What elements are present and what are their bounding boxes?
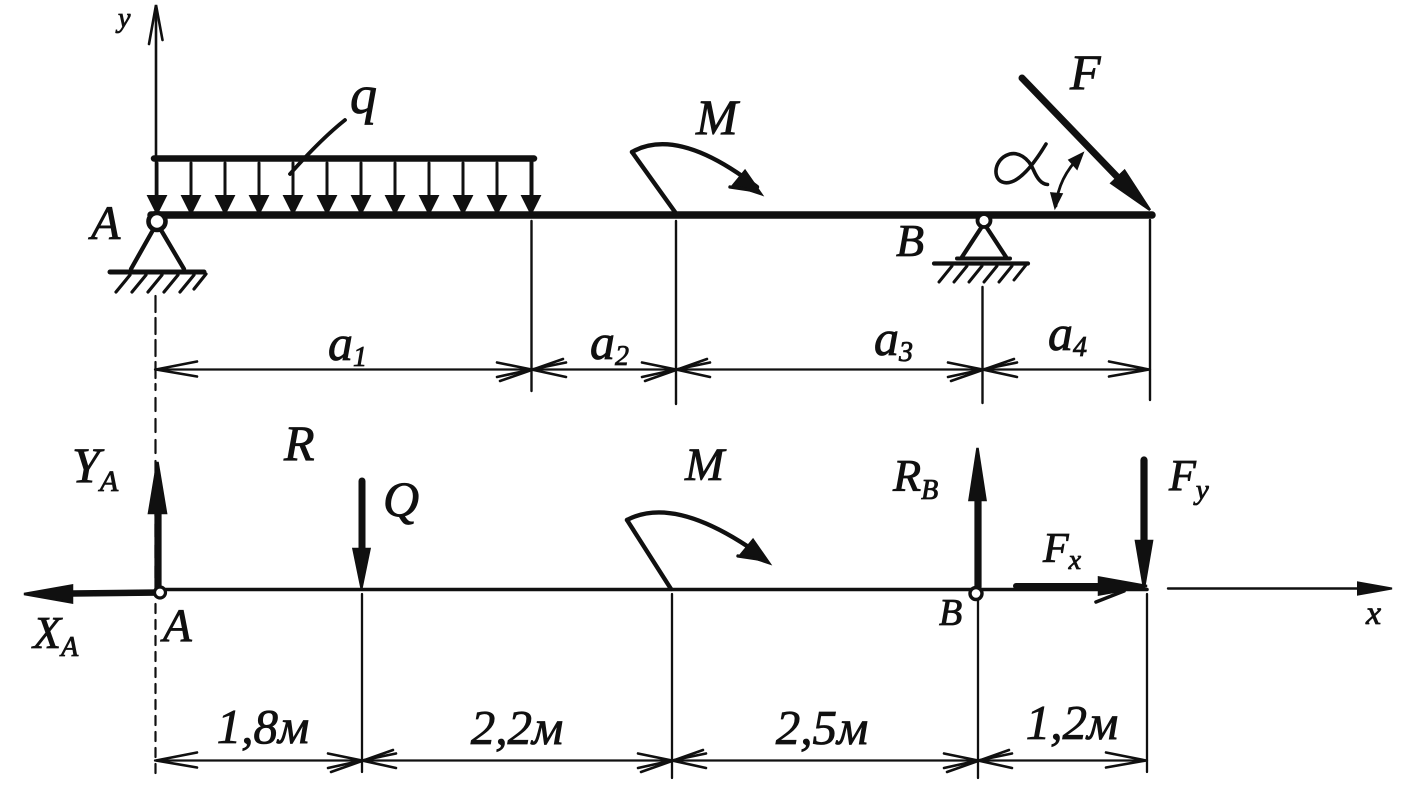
x-axis tail with arrow <box>1168 587 1385 589</box>
force Fy arrow <box>1140 460 1147 540</box>
dim junction a3/a4 <box>948 359 1017 381</box>
distributed load q top bar <box>154 155 534 162</box>
force Q arrow <box>359 481 366 550</box>
angle alpha arc <box>1051 153 1083 208</box>
svg-text:A: A <box>88 197 121 250</box>
reaction RB arrow <box>974 500 981 587</box>
ground line B <box>934 261 1028 265</box>
beam (top) <box>151 211 1152 219</box>
reaction XA arrow <box>72 593 160 594</box>
support A pin <box>110 230 206 292</box>
label alpha <box>996 144 1048 185</box>
ground line A <box>110 270 204 275</box>
support B pin <box>934 228 1028 282</box>
svg-text:2,5м: 2,5м <box>776 700 869 755</box>
dim arrow right end (1,2m) <box>1106 753 1146 768</box>
extension line at B (top) <box>981 287 983 403</box>
dim junction a2/a3 <box>642 359 710 381</box>
svg-text:YA: YA <box>72 437 119 498</box>
bottom dimension line <box>155 759 1147 761</box>
hatching B <box>939 265 1026 282</box>
svg-text:M: M <box>684 439 727 491</box>
extension line a2/a3 (M point) <box>675 221 677 404</box>
hatching A <box>116 274 206 292</box>
dim junction 2,2/2,5 <box>638 750 706 772</box>
extension line a1/a2 <box>530 221 532 391</box>
extension line Q (bottom) <box>361 594 363 772</box>
pin circle A <box>149 213 166 230</box>
svg-text:x: x <box>1365 595 1381 632</box>
svg-text:XA: XA <box>31 607 79 663</box>
centerline A between diagrams <box>154 296 156 390</box>
svg-text:a3: a3 <box>874 310 913 368</box>
x-axis beam (bottom) <box>157 588 1147 592</box>
moment M (bottom) arc arrow <box>627 512 769 589</box>
dim arrow right end (a4) <box>1109 362 1149 377</box>
dim junction 1,8/2,2 <box>328 750 396 772</box>
svg-text:Q: Q <box>383 471 419 527</box>
dim junction a1/a2 <box>497 359 566 381</box>
dim arrow left end (1,8m) <box>156 753 197 768</box>
svg-text:A: A <box>160 600 192 652</box>
svg-text:R: R <box>283 415 315 471</box>
svg-text:1,8м: 1,8м <box>217 699 310 754</box>
hinge circle B (bottom) <box>970 588 982 600</box>
pin circle B <box>978 214 991 227</box>
reaction YA arrow <box>154 502 161 588</box>
svg-text:a4: a4 <box>1048 305 1087 363</box>
svg-text:Fy: Fy <box>1168 451 1209 506</box>
svg-text:RB: RB <box>892 450 938 506</box>
distributed load right edge <box>530 160 534 209</box>
svg-text:2,2м: 2,2м <box>471 700 564 755</box>
svg-text:q: q <box>350 65 377 125</box>
q leader line <box>290 120 345 174</box>
extension line M (bottom) <box>671 594 673 778</box>
top dimension line <box>155 368 1150 370</box>
svg-text:Fx: Fx <box>1042 526 1082 576</box>
svg-text:M: M <box>695 89 740 145</box>
svg-text:1,2м: 1,2м <box>1026 695 1119 750</box>
dim arrow left end (a1) <box>156 362 197 377</box>
svg-text:a1: a1 <box>328 315 367 373</box>
distributed load arrows <box>149 163 539 213</box>
moment M (top) arc arrow <box>632 144 761 212</box>
extension line right end (top) <box>1149 220 1151 400</box>
dim junction 2,5/1,2 <box>944 750 1012 772</box>
hinge circle A (bottom) <box>155 587 166 598</box>
svg-text:y: y <box>115 3 131 34</box>
svg-text:B: B <box>939 592 962 634</box>
extension line B (bottom) <box>977 601 979 778</box>
svg-text:B: B <box>896 215 924 266</box>
force F arrowhead <box>1112 171 1151 210</box>
centerline A below (bottom) <box>154 604 156 775</box>
svg-text:a2: a2 <box>590 314 629 372</box>
extension line right end (bottom) <box>1146 594 1148 772</box>
y-axis <box>149 5 163 213</box>
svg-text:F: F <box>1069 44 1101 100</box>
force F inclined line <box>1022 78 1127 187</box>
force Fx arrow <box>1016 583 1098 589</box>
